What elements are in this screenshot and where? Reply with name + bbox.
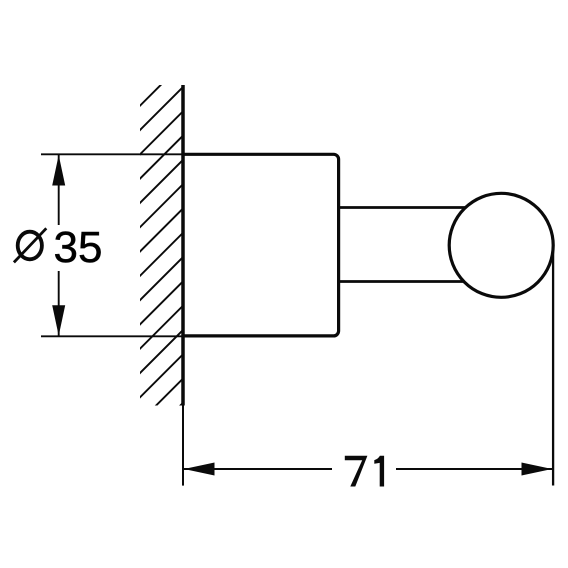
dimension 71: left extension line (below wall) bbox=[182, 406, 184, 486]
dimension 71: dimension line right segment bbox=[396, 468, 552, 470]
dimension label 71: digit 7 bbox=[345, 456, 368, 487]
dimension label 71: digit 1 bbox=[374, 456, 384, 487]
hook arm bottom line bbox=[339, 280, 470, 283]
dimension 71: left arrow bbox=[184, 463, 215, 476]
dimension Ø35: dimension line lower segment bbox=[58, 271, 60, 336]
dimension label Ø 35: diameter symbol circle bbox=[18, 232, 42, 260]
wall hatching bbox=[135, 56, 190, 451]
dimension 71: right arrow bbox=[522, 463, 553, 476]
dimension Ø35: up arrow bbox=[52, 155, 65, 186]
dimension Ø35: down arrow bbox=[52, 305, 65, 336]
hook ball (circle) bbox=[449, 193, 553, 297]
wall line bbox=[181, 85, 185, 406]
rosette (wall mount rectangle) bbox=[183, 154, 339, 336]
dimension label Ø 35: diameter symbol slash bbox=[14, 228, 46, 262]
dimension Ø35: dimension line upper segment bbox=[58, 155, 60, 225]
svg-text:35: 35 bbox=[54, 223, 103, 272]
hook arm top line bbox=[339, 206, 470, 209]
dimension 71: dimension line left segment bbox=[184, 468, 332, 470]
dimension Ø35: bottom extension line bbox=[41, 335, 183, 337]
dimension 71: right extension line bbox=[552, 247, 554, 486]
dimension Ø35: top extension line bbox=[41, 153, 183, 155]
